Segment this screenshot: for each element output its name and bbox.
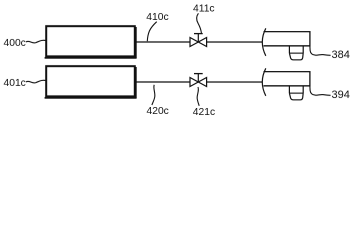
- wire from tank 401c to valve 421c: [136, 81, 190, 83]
- nozzle 384 tip cup: [289, 53, 303, 60]
- printhead 394 inlet arc: [262, 68, 266, 96]
- svg-text:411c: 411c: [193, 4, 215, 15]
- leader from 410c to wire: [147, 22, 156, 42]
- leader from 411c to valve stem: [197, 13, 202, 33]
- leader from 401c to tank: [26, 80, 46, 83]
- svg-text:384: 384: [331, 49, 349, 61]
- printhead 394 body: [263, 72, 309, 86]
- wire from valve 421c to printhead 394: [207, 81, 262, 83]
- tank rectangle 400c: [46, 26, 135, 56]
- nozzle 394 left side: [288, 86, 290, 93]
- printhead 384 body: [264, 32, 310, 46]
- svg-text:401c: 401c: [3, 78, 25, 89]
- valve 421c bowtie: [190, 78, 207, 87]
- tank 400c bottom shadow: [45, 57, 137, 59]
- svg-text:400c: 400c: [4, 38, 26, 49]
- printhead 384 inlet arc: [262, 28, 266, 56]
- leader from valve 421c to 421c: [197, 87, 199, 106]
- nozzle 394 tip cup: [289, 93, 303, 100]
- svg-text:410c: 410c: [146, 12, 168, 23]
- leader from wire to 420c: [152, 85, 155, 105]
- tank 401c right shadow: [135, 67, 137, 98]
- nozzle 394 divider: [289, 92, 303, 94]
- svg-text:421c: 421c: [193, 107, 215, 118]
- tank 401c bottom shadow: [45, 97, 137, 99]
- tank rectangle 401c: [46, 66, 135, 96]
- svg-text:420c: 420c: [146, 106, 168, 117]
- wire from valve 411c to printhead 384: [207, 41, 262, 43]
- valve 411c handle bar: [194, 33, 203, 35]
- svg-text:394: 394: [331, 89, 349, 101]
- valve 421c stem: [197, 74, 199, 82]
- leader from 400c to tank: [26, 40, 46, 43]
- leader from printhead to 394: [310, 86, 331, 95]
- nozzle 384 right side: [302, 46, 304, 53]
- tank 400c right shadow: [135, 27, 137, 58]
- wire from tank 400c to valve 411c: [136, 41, 190, 43]
- nozzle 384 divider: [289, 52, 303, 54]
- nozzle 384 left side: [288, 46, 290, 53]
- valve 411c bowtie: [190, 38, 207, 47]
- nozzle 394 right side: [302, 86, 304, 93]
- valve 411c stem: [197, 34, 199, 42]
- valve 421c handle bar: [194, 73, 203, 75]
- leader from printhead to 384: [310, 46, 331, 55]
